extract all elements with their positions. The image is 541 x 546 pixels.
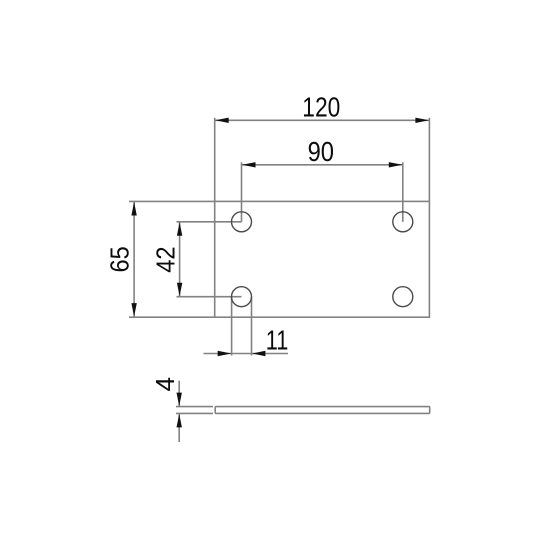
dim 65 dimension line — [133, 202, 135, 317]
svg-text:11: 11 — [266, 325, 289, 356]
dim 120 dimension line — [215, 119, 429, 121]
dim 120 extension line right — [428, 118, 430, 202]
dim 90 extension line left — [241, 162, 243, 222]
plate outline (front view) — [215, 201, 430, 317]
dim 42 extension line bottom — [177, 296, 242, 298]
dim 11 arrowhead right (points left) — [252, 351, 266, 356]
dim 65 extension line bottom — [129, 316, 215, 318]
dim 4 extension line top — [176, 406, 213, 408]
svg-text:120: 120 — [302, 92, 340, 123]
dim 90 dimension line — [242, 164, 402, 166]
dim 4 arrowhead upper (points down) — [177, 393, 182, 407]
dim 4 dimension line lower — [178, 414, 180, 442]
dim 120 arrowhead right — [415, 118, 429, 123]
dim 90 arrowhead left — [242, 162, 256, 167]
dim 90 extension line right — [402, 162, 404, 222]
hole bottom-left — [232, 287, 252, 307]
svg-text:90: 90 — [308, 136, 334, 167]
plate outline (side view) — [215, 407, 430, 414]
dim 90 arrowhead right — [389, 162, 403, 167]
svg-text:42: 42 — [150, 246, 180, 272]
dim 4 dimension line upper — [178, 381, 180, 406]
dim 65 arrowhead bottom — [131, 303, 136, 317]
hole bottom-right — [393, 287, 413, 307]
hole top-right — [393, 212, 413, 232]
svg-text:4: 4 — [150, 377, 180, 392]
dim 42 arrowhead bottom — [177, 283, 182, 297]
dim 4 extension line bottom — [176, 412, 213, 414]
dim 11 dimension line right segment — [252, 353, 289, 355]
dim 42 arrowhead top — [177, 222, 182, 236]
svg-text:65: 65 — [105, 246, 135, 272]
dim 11 arrowhead left (points right) — [218, 351, 232, 356]
dim 42 extension line top — [177, 221, 242, 223]
dim 42 dimension line — [179, 222, 181, 296]
dim 120 extension line left — [214, 118, 216, 202]
dim 4 arrowhead lower (points up) — [177, 414, 182, 428]
dim 11 extension line right (hole tangent) — [251, 297, 253, 356]
dim 65 arrowhead top — [131, 202, 136, 216]
hole top-left — [232, 212, 252, 232]
dim 11 extension line left (hole tangent) — [231, 297, 233, 356]
dim 11 dimension line left segment — [204, 353, 252, 355]
dim 120 arrowhead left — [215, 118, 229, 123]
dim 65 extension line top — [129, 200, 215, 202]
